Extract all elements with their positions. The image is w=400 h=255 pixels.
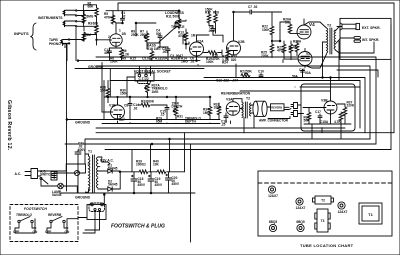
switch AC bbox=[41, 178, 54, 186]
resistor cathode V2A bbox=[208, 51, 217, 55]
wire T3 primary CT bbox=[323, 42, 327, 78]
svg-text:C18A: C18A bbox=[320, 120, 329, 124]
svg-text:C7: C7 bbox=[248, 5, 252, 9]
svg-text:50K: 50K bbox=[246, 70, 253, 74]
svg-text:T2: T2 bbox=[321, 199, 325, 203]
box speaker panel bbox=[340, 18, 391, 59]
svg-text:12AX7: 12AX7 bbox=[338, 210, 348, 214]
connector foot pedal socket bbox=[135, 73, 154, 81]
wire B+ preamp rail bbox=[106, 10, 180, 12]
svg-text:C8: C8 bbox=[124, 104, 128, 108]
wire J3 to column bbox=[67, 35, 83, 61]
wire socket to tremolo bbox=[127, 77, 135, 97]
tube V4 bbox=[297, 25, 311, 39]
svg-text:5A045: 5A045 bbox=[52, 193, 62, 197]
wire V3B mesh bbox=[303, 104, 351, 124]
switch reverb bbox=[50, 220, 52, 222]
svg-text:R15: R15 bbox=[130, 57, 136, 61]
svg-text:1MG: 1MG bbox=[181, 60, 188, 64]
wire cathode to ground bus bbox=[110, 46, 122, 60]
wire bus pair lower bbox=[110, 81, 360, 88]
svg-text:TUBE LOCATION CHART: TUBE LOCATION CHART bbox=[300, 243, 354, 248]
wire tone network bbox=[147, 40, 186, 49]
svg-text:10K: 10K bbox=[153, 163, 160, 167]
AC plug bbox=[25, 169, 41, 179]
wire nested loop C bbox=[337, 70, 378, 77]
wire loudness tap bbox=[136, 23, 177, 42]
svg-text:R31: R31 bbox=[177, 115, 183, 119]
brace inputs bbox=[31, 23, 37, 50]
svg-text:FOOTSWITCH & PLUG: FOOTSWITCH & PLUG bbox=[111, 224, 165, 230]
svg-text:1MG: 1MG bbox=[152, 90, 159, 94]
wire ground mid bbox=[66, 119, 220, 121]
svg-text:TREBLE: TREBLE bbox=[171, 25, 185, 29]
svg-text:REVERBERATION: REVERBERATION bbox=[221, 92, 251, 96]
wire filter rails up bbox=[132, 133, 185, 172]
tube V2A bbox=[190, 42, 204, 56]
ground bus left bbox=[78, 60, 200, 62]
wire bottom bus band bbox=[65, 124, 394, 150]
wire V3A plate to T2 bbox=[233, 99, 242, 109]
input jack J1 bbox=[63, 10, 76, 16]
svg-text:REVERB: REVERB bbox=[271, 106, 282, 110]
box REVERB bbox=[271, 104, 285, 111]
svg-text:GROUND: GROUND bbox=[75, 121, 91, 125]
wire reverb box bbox=[267, 107, 291, 110]
svg-text:T1: T1 bbox=[88, 150, 92, 154]
svg-text:INSTRUMENTS: INSTRUMENTS bbox=[38, 16, 63, 20]
svg-text:100K: 100K bbox=[110, 60, 118, 64]
svg-text:50A: 50A bbox=[305, 71, 312, 75]
tube V3B bbox=[324, 101, 337, 114]
tube V5 bbox=[298, 52, 312, 66]
reverb tank bbox=[253, 101, 258, 116]
box footswitch dashed bbox=[10, 205, 78, 242]
node coupling bbox=[271, 40, 272, 41]
wire band verticals left bbox=[108, 103, 210, 124]
speaker jack EXT bbox=[342, 24, 356, 29]
wire speaker ground vertical bbox=[391, 3, 394, 150]
svg-text:1: 1 bbox=[119, 29, 121, 33]
svg-text:INPUTS: INPUTS bbox=[14, 31, 29, 36]
svg-text:V2A: V2A bbox=[197, 40, 204, 44]
svg-text:R24: R24 bbox=[222, 61, 228, 65]
svg-text:EXT. SPKR.: EXT. SPKR. bbox=[362, 26, 381, 30]
svg-text:FOOTSWITCH: FOOTSWITCH bbox=[24, 207, 47, 211]
svg-text:V5: V5 bbox=[306, 52, 310, 56]
svg-text:V3A: V3A bbox=[226, 98, 233, 102]
svg-text:5K: 5K bbox=[293, 45, 298, 49]
tube V1A bbox=[110, 34, 122, 46]
wire J1 to column bbox=[77, 11, 84, 22]
svg-text:C17: C17 bbox=[315, 110, 321, 114]
svg-text:.0047: .0047 bbox=[208, 29, 216, 33]
wire V5 plate to T3 bbox=[305, 54, 327, 68]
tube V3A bbox=[226, 102, 240, 116]
svg-text:68K: 68K bbox=[93, 21, 100, 25]
svg-text:.02: .02 bbox=[253, 5, 258, 9]
svg-text:6MG: 6MG bbox=[87, 15, 94, 19]
svg-text:A.C.: A.C. bbox=[15, 172, 22, 176]
svg-text:T2: T2 bbox=[246, 97, 250, 101]
tube chart T2 bbox=[315, 196, 331, 204]
svg-text:T3: T3 bbox=[321, 219, 325, 223]
wire AC to T1 bbox=[41, 164, 86, 193]
wire treble wiper to V2A grid bbox=[178, 20, 189, 44]
svg-text:470K: 470K bbox=[277, 49, 285, 53]
wire connector to V3B box bbox=[268, 105, 304, 119]
wire left ground vertical bbox=[63, 43, 67, 192]
wire tremolo bus bbox=[104, 96, 210, 98]
wire rail left extension bbox=[85, 139, 112, 164]
wire tremolo mesh bbox=[102, 63, 196, 120]
svg-text:C10: C10 bbox=[258, 70, 264, 74]
svg-text:450V: 450V bbox=[138, 183, 146, 187]
svg-text:.25: .25 bbox=[221, 123, 226, 127]
wire top border bbox=[118, 3, 394, 11]
svg-text:250K: 250K bbox=[131, 33, 139, 37]
tube chart T3 bbox=[317, 209, 328, 232]
svg-text:1K: 1K bbox=[285, 21, 290, 25]
svg-text:R17: R17 bbox=[205, 11, 211, 15]
wire mid vertical bbox=[104, 69, 110, 120]
lamp bbox=[58, 183, 64, 189]
capacitor C16b bbox=[301, 70, 305, 78]
wire ground bus bottom bbox=[60, 164, 195, 193]
wire V2B plate up bbox=[233, 12, 235, 38]
svg-text:220K: 220K bbox=[347, 104, 355, 108]
svg-text:820: 820 bbox=[231, 58, 237, 62]
svg-text:1M: 1M bbox=[191, 34, 196, 38]
wire T1 primary bbox=[86, 154, 89, 192]
wire bus pair upper bbox=[204, 78, 365, 133]
wire bus B+ upper bbox=[96, 57, 376, 144]
svg-text:100K: 100K bbox=[206, 60, 214, 64]
wire C1 to loudness bbox=[122, 10, 124, 12]
svg-text:5A045: 5A045 bbox=[108, 183, 118, 187]
node junction grid bbox=[96, 39, 97, 40]
svg-text:C12 .022: C12 .022 bbox=[216, 79, 229, 83]
wire T3 secondary to jacks bbox=[335, 27, 347, 54]
wire nest horizontal c bbox=[240, 87, 360, 128]
svg-text:.02: .02 bbox=[146, 57, 151, 61]
connector footswitch plug bbox=[87, 205, 106, 220]
svg-text:2: 2 bbox=[197, 64, 199, 68]
svg-text:T1: T1 bbox=[368, 212, 373, 217]
svg-text:1B: 1B bbox=[122, 32, 127, 36]
wire coupling to V4 grid bbox=[272, 30, 280, 41]
wire V4 plate to T3 bbox=[304, 22, 327, 28]
wire footswitch wiring bbox=[15, 219, 78, 233]
svg-text:R9: R9 bbox=[122, 57, 126, 61]
svg-text:T3: T3 bbox=[327, 24, 331, 28]
input jack J2 bbox=[63, 21, 76, 27]
tube chart T1 bbox=[359, 203, 382, 224]
wire V2A plate coupling bbox=[197, 26, 224, 42]
svg-text:V3B: V3B bbox=[321, 99, 328, 103]
tube V2B bbox=[227, 41, 241, 55]
speaker jack INT bbox=[354, 37, 361, 39]
svg-text:V1B: V1B bbox=[109, 104, 116, 108]
resistor R29B bbox=[289, 44, 293, 53]
svg-text:450V: 450V bbox=[155, 183, 163, 187]
fuse F1 bbox=[74, 170, 79, 175]
svg-text:220K: 220K bbox=[160, 57, 168, 61]
wire plug leads bbox=[78, 211, 100, 234]
wire grid bus to V1A bbox=[83, 5, 110, 45]
svg-text:V2B: V2B bbox=[238, 40, 245, 44]
wire speaker return bbox=[347, 42, 374, 53]
wire rectifier out bbox=[120, 171, 139, 173]
resistor cathode V2B bbox=[226, 50, 230, 59]
svg-text:REVERB: REVERB bbox=[48, 213, 62, 217]
wire V2A cathode bbox=[196, 56, 198, 61]
svg-text:6BQ5: 6BQ5 bbox=[296, 220, 305, 224]
connector plugs bbox=[291, 103, 301, 109]
svg-text:GROUND: GROUND bbox=[75, 196, 91, 200]
wire reverb drop bbox=[219, 116, 341, 139]
tube V1B bbox=[111, 105, 125, 119]
svg-text:.02: .02 bbox=[133, 106, 138, 110]
wire reverb return vertical bbox=[190, 145, 192, 243]
svg-text:12AX7: 12AX7 bbox=[268, 194, 278, 198]
svg-text:2: 2 bbox=[108, 35, 110, 39]
wire ground to plug bbox=[103, 193, 105, 205]
wire V5 to band bbox=[283, 60, 303, 87]
svg-text:.02: .02 bbox=[121, 14, 126, 18]
wire feedback bbox=[295, 41, 339, 80]
tube chart V1 bbox=[268, 186, 275, 193]
node junctions bbox=[66, 10, 331, 194]
svg-text:500: 500 bbox=[156, 32, 162, 36]
dashed chassis line bbox=[258, 182, 392, 184]
wire J2 to column bbox=[77, 21, 84, 26]
capacitor C22 line filter bbox=[51, 172, 57, 181]
svg-text:Gibson Reverb 12.: Gibson Reverb 12. bbox=[6, 100, 12, 151]
svg-text:.02: .02 bbox=[190, 60, 195, 64]
svg-text:1000Ω: 1000Ω bbox=[136, 163, 146, 167]
node tremolo bbox=[147, 96, 148, 97]
wire V3B plate up bbox=[330, 78, 332, 99]
svg-text:50A: 50A bbox=[292, 75, 299, 79]
svg-text:INT. SPKR.: INT. SPKR. bbox=[362, 38, 379, 42]
wire plate to B+ rail bbox=[113, 11, 123, 29]
wire left sleeve vertical bbox=[75, 28, 77, 61]
svg-text:12AX7: 12AX7 bbox=[296, 206, 306, 210]
svg-text:R18: R18 bbox=[213, 11, 219, 15]
wire bus mid bbox=[75, 64, 236, 78]
svg-text:.047: .047 bbox=[232, 79, 238, 83]
svg-text:AMP. CONNECTOR: AMP. CONNECTOR bbox=[259, 119, 289, 123]
svg-text:6BQ5: 6BQ5 bbox=[269, 220, 278, 224]
tube chart V3 bbox=[338, 202, 345, 209]
svg-text:450V: 450V bbox=[172, 182, 180, 186]
svg-text:PHONO: PHONO bbox=[49, 42, 61, 46]
input jack J3 tape/phono bbox=[61, 40, 69, 48]
svg-text:100K: 100K bbox=[214, 106, 222, 110]
box tube location chart bbox=[258, 171, 392, 236]
wire heater bbox=[98, 157, 110, 167]
svg-text:V4: V4 bbox=[309, 22, 315, 27]
tube chart V2 bbox=[296, 198, 303, 205]
box tremolo oscillator bbox=[301, 84, 355, 131]
switch tremolo bbox=[18, 220, 20, 222]
